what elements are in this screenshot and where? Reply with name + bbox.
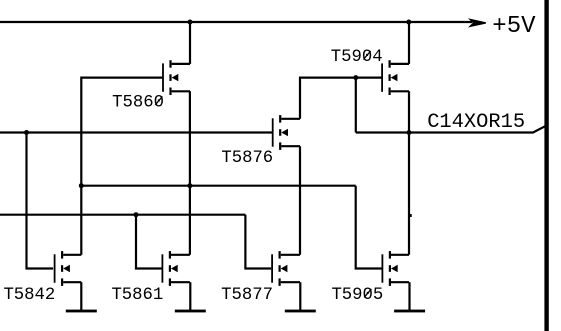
node dot T5904 gate/feedback	[353, 75, 358, 80]
+5V arrow	[470, 20, 486, 27]
slash of zero in T5905	[364, 289, 371, 298]
node dot output/T5842 gate	[24, 130, 29, 135]
wire T5860 gate riser (T5842 drain column)	[81, 78, 162, 255]
svg-text:T5877: T5877	[221, 286, 273, 305]
node dot rail/T5904	[406, 20, 411, 25]
transistor T5877	[271, 251, 300, 286]
ground under T5905	[394, 310, 425, 313]
svg-text:+5V: +5V	[492, 13, 536, 40]
svg-text:C14XOR15: C14XOR15	[427, 111, 525, 134]
wire net row2 horizontal	[81, 185, 355, 187]
slash of zero in T5904	[363, 51, 370, 60]
svg-text:T5904: T5904	[331, 48, 383, 67]
transistor T5842	[54, 251, 82, 286]
wire T5904 drain to rail	[408, 22, 410, 64]
node stub on T5905 drain column	[410, 214, 412, 217]
transistor T5904	[381, 60, 409, 95]
node dot rail/T5860	[188, 20, 193, 25]
wire row2 to T5905 gate	[356, 186, 382, 269]
node dot output/T5905 drain	[407, 130, 412, 135]
wire T5861 source to ground	[189, 282, 191, 310]
wire T5877 source to ground	[299, 282, 301, 310]
wire T5842 source to ground	[80, 282, 82, 310]
wire T5876 source down to T5877 drain	[299, 146, 301, 255]
transistor T5860	[162, 60, 190, 95]
node dot row2 left	[79, 183, 84, 188]
transistor T5861	[162, 251, 190, 286]
wire T5860 drain to rail	[189, 22, 191, 64]
wire T5860 source to T5861 drain	[189, 91, 191, 255]
wire T5905 source to ground	[408, 282, 410, 310]
bus line right edge	[544, 0, 548, 331]
svg-text:T5861: T5861	[111, 286, 163, 305]
svg-text:T5905: T5905	[331, 286, 383, 305]
node dot row2/T5861 drain	[187, 183, 192, 188]
ground under T5842	[66, 310, 97, 313]
wire T5904 gate from T5876 drain	[300, 78, 382, 119]
wire row3 to T5861 gate	[136, 215, 162, 269]
wire node feedback from T5904 gate down to output	[355, 78, 357, 133]
node dot row3/T5861 gate	[134, 212, 139, 217]
wire T5904 source to T5905 drain	[408, 91, 410, 255]
wire net row3 horizontal	[0, 214, 245, 216]
wire row3 to T5877 gate	[245, 215, 271, 269]
svg-text:T5842: T5842	[3, 286, 55, 305]
wire +5V rail	[0, 21, 472, 23]
svg-text:T5876: T5876	[221, 149, 273, 168]
transistor T5876	[272, 115, 300, 150]
slash of zero in T5860	[155, 96, 162, 105]
wire output to T5842 gate	[27, 133, 54, 269]
wire output right segment C14XOR15	[356, 126, 545, 132]
wire output left segment into T5876 gate	[0, 131, 272, 133]
transistor T5905	[382, 251, 410, 286]
ground under T5861	[175, 310, 206, 313]
ground under T5877	[285, 310, 316, 313]
